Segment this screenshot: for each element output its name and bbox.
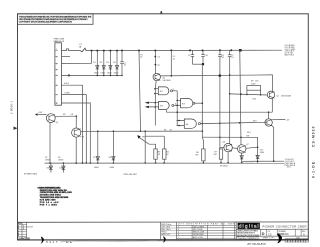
- signature box: [161, 222, 177, 243]
- capacitor C9: [188, 50, 194, 64]
- handwritten note below title block: [247, 242, 266, 246]
- svg-text:1/2W: 1/2W: [251, 84, 256, 86]
- svg-text:D9 D664: D9 D664: [220, 166, 227, 168]
- svg-text:Q2: Q2: [56, 122, 59, 124]
- svg-text:CAP .01 MFD: CAP .01 MFD: [193, 225, 205, 228]
- wire x257 drop: [257, 137, 259, 163]
- svg-text:.01: .01: [222, 57, 225, 59]
- wire pin1 to fuse: [62, 49, 81, 51]
- transistor Q6: [220, 142, 232, 163]
- svg-text:R14: R14: [247, 132, 250, 134]
- right margin vertical drawing number: [312, 126, 316, 178]
- svg-text:11: 11: [175, 103, 177, 105]
- wire Q2 collector to Q3 base: [55, 114, 77, 128]
- diode D2: [100, 51, 106, 76]
- digital logo: [238, 223, 260, 229]
- wire Q1 collector run: [160, 75, 272, 76]
- capacitor C1: [120, 51, 126, 76]
- svg-text:D662: D662: [94, 72, 99, 74]
- svg-text:5: 5: [56, 75, 57, 77]
- wire E3-E4 vertical: [202, 64, 204, 149]
- node power gnd label: [24, 174, 138, 177]
- svg-text:D1: D1: [93, 62, 95, 64]
- svg-text:1K: 1K: [158, 154, 161, 156]
- svg-text:PWR GND RET: PWR GND RET: [124, 174, 138, 176]
- svg-text:D4: D4: [113, 62, 115, 64]
- svg-text:Q6: Q6: [223, 142, 226, 144]
- svg-text:.01: .01: [173, 59, 176, 61]
- wire y1362 run: [145, 136, 164, 149]
- svg-text:2: 2: [23, 228, 24, 230]
- svg-text:E4: E4: [186, 124, 189, 126]
- parts list table: [177, 222, 237, 240]
- wire connector pin7 drop: [62, 83, 87, 163]
- svg-text:Q2: Q2: [276, 95, 279, 97]
- svg-text:C8: C8: [71, 114, 73, 116]
- svg-text:D664: D664: [47, 168, 51, 170]
- node +15V labels top right: [284, 44, 295, 57]
- title text: [263, 224, 307, 228]
- wire loop y112: [167, 110, 273, 113]
- diode lower bus junction dots: [97, 75, 123, 77]
- svg-text:JKT 84L2B-BYP: JKT 84L2B-BYP: [247, 242, 266, 246]
- title block: [236, 222, 308, 240]
- svg-text:POWER CONNECTOR CBDR: POWER CONNECTOR CBDR: [263, 224, 307, 228]
- wire bus drop at 240: [240, 50, 241, 145]
- svg-text:.01: .01: [124, 65, 127, 67]
- diode D7: [93, 131, 100, 169]
- svg-text:R5: R5: [164, 129, 166, 131]
- svg-text:D662: D662: [107, 72, 112, 74]
- svg-text:0-1-DE: 0-1-DE: [312, 161, 316, 178]
- svg-text:D662: D662: [101, 72, 106, 74]
- wire connector pin8 drop: [62, 103, 91, 163]
- svg-text:6 BLK: 6 BLK: [64, 83, 70, 85]
- svg-text:5417 - ME: 5417 - ME: [46, 240, 73, 244]
- svg-text:R8: R8: [247, 135, 249, 137]
- fuse F1: [79, 44, 86, 52]
- resistor R9 bypass: [247, 81, 261, 101]
- diode D9: [220, 153, 243, 167]
- ground bus wire: [45, 162, 284, 164]
- resistor R3: [154, 149, 161, 163]
- svg-text:ENG J.Best: ENG J.Best: [161, 228, 171, 231]
- svg-text:MAYNARD. MASSACHUSETTS: MAYNARD. MASSACHUSETTS: [237, 232, 256, 235]
- diode D4: [113, 51, 119, 76]
- svg-text:8: 8: [173, 89, 174, 91]
- node out labels right middle: [285, 158, 296, 169]
- svg-text:R10: R10: [253, 98, 256, 100]
- svg-text:D664: D664: [110, 167, 115, 169]
- capacitor C6: [218, 50, 224, 59]
- svg-text:digital: digital: [239, 224, 259, 229]
- svg-text:6: 6: [201, 121, 202, 123]
- wire Q1 emitter down: [154, 81, 156, 126]
- wire right out line2: [242, 160, 284, 162]
- microfilm ruler: [285, 239, 308, 242]
- svg-text:E3: E3: [182, 103, 185, 105]
- bold pen mark title block: [277, 234, 282, 244]
- svg-text:D7: D7: [93, 157, 95, 159]
- svg-text:D664: D664: [94, 167, 99, 169]
- svg-text:Q7: Q7: [246, 144, 249, 146]
- top border tick: [161, 11, 163, 13]
- title block small text: [237, 229, 260, 240]
- svg-text:1: 1: [178, 237, 179, 239]
- nand gate E3: [181, 99, 203, 108]
- svg-text:CS-M920: CS-M920: [312, 126, 316, 147]
- diode D1: [93, 51, 99, 76]
- svg-text:COPYRIGHT 1971 BY DIGITAL EQUI: COPYRIGHT 1971 BY DIGITAL EQUIPMENT CORP…: [19, 21, 72, 24]
- size code cells: [262, 231, 307, 240]
- notice box: [18, 14, 94, 24]
- svg-text:C10: C10: [205, 55, 208, 57]
- diode D3: [106, 51, 112, 76]
- capacitor C4 drop: [171, 50, 176, 76]
- ground bus junction dots: [49, 162, 242, 164]
- svg-text:2: 2: [56, 56, 57, 58]
- connector J1: [54, 39, 65, 106]
- wire E4 output to Q5 base: [200, 122, 267, 124]
- svg-text:R9: R9: [251, 81, 253, 83]
- wire vertical x230: [229, 57, 231, 144]
- wire connector pin5 to lower bus: [62, 75, 123, 77]
- nand gate E1: [155, 87, 177, 95]
- wire vertical x220: [219, 57, 221, 149]
- transistor Q7: [232, 144, 257, 153]
- svg-text:CHK T.Holt: CHK T.Holt: [161, 225, 170, 228]
- svg-text:390: 390: [195, 155, 198, 157]
- wire y137 run: [202, 135, 257, 138]
- svg-text:4: 4: [56, 69, 57, 71]
- svg-text:1N748: 1N748: [58, 160, 63, 162]
- svg-text:C9: C9: [188, 55, 190, 57]
- svg-text:(POWER GND): (POWER GND): [24, 174, 37, 176]
- wire Q4 emitter down: [271, 98, 273, 112]
- wire Q3 emitter down: [75, 137, 77, 163]
- svg-text:D8: D8: [109, 157, 111, 159]
- test point TP1 arrow: [137, 135, 155, 149]
- svg-text:CHANGE NO: CHANGE NO: [18, 238, 31, 241]
- svg-text:D664: D664: [60, 168, 64, 170]
- wire Q2 emitter down: [49, 123, 51, 164]
- svg-text:D664: D664: [260, 152, 264, 154]
- svg-text:+15V: +15V: [38, 112, 43, 114]
- capacitor C10: [201, 50, 207, 64]
- svg-text:E1: E1: [160, 91, 163, 93]
- wire connector pin3 to diode bus: [62, 51, 92, 64]
- svg-text:QTY DESCRIPTION PART NO. RE: QTY DESCRIPTION PART NO. REF: [178, 223, 235, 226]
- svg-text:470: 470: [255, 81, 258, 83]
- svg-text:D2: D2: [100, 62, 102, 64]
- bottom scribble mark 1: [41, 237, 160, 245]
- svg-text:8: 8: [56, 103, 57, 105]
- svg-text:1N748: 1N748: [45, 160, 50, 162]
- svg-text:E: E: [18, 235, 20, 237]
- svg-text:1K: 1K: [140, 57, 143, 59]
- resistor R7: [214, 149, 223, 163]
- svg-text:CS: CS: [268, 232, 272, 236]
- diode D6: [58, 157, 65, 172]
- svg-text:R13: R13: [253, 120, 256, 122]
- transistor Q4: [267, 91, 291, 98]
- svg-text:1: 1: [56, 49, 57, 51]
- svg-text:6: 6: [56, 85, 57, 87]
- revision table bottom left: [18, 222, 34, 240]
- svg-text:D3: D3: [106, 62, 108, 64]
- svg-text:CIRCUITS ARE PROPRIETARY IN NA: CIRCUITS ARE PROPRIETARY IN NATURE AND S…: [19, 18, 89, 21]
- left margin vertical drawing number: [10, 100, 14, 114]
- wire x145 vertical: [144, 131, 146, 163]
- +V bus wire: [86, 49, 282, 51]
- wire long vertical from bus: [139, 51, 143, 133]
- svg-text:R2: R2: [158, 65, 160, 67]
- svg-text:AMP CONN: AMP CONN: [193, 236, 203, 239]
- svg-text:THIS SCHEMATIC IS FURNISHED ON: THIS SCHEMATIC IS FURNISHED ONLY FOR TES…: [19, 15, 92, 18]
- svg-text:D662: D662: [114, 72, 119, 74]
- wire Q4 base line: [230, 93, 268, 95]
- wire Q5 emitter down: [247, 125, 274, 161]
- svg-text:3: 3: [56, 63, 57, 65]
- diode D5: [45, 157, 53, 172]
- diode D8: [109, 131, 116, 169]
- svg-text:DATE 9-12: DATE 9-12: [161, 233, 170, 236]
- capacitor C7: [228, 50, 234, 59]
- wire connector pin2 stub: [62, 56, 71, 58]
- svg-text:GND F BLK: GND F BLK: [284, 55, 295, 57]
- bus junction dots: [91, 49, 242, 52]
- svg-text:SHEET 1 OF 1: SHEET 1 OF 1: [263, 238, 275, 240]
- svg-text:R2: R2: [63, 114, 65, 116]
- transistor Q5: [253, 112, 290, 126]
- svg-text:A: A: [303, 232, 305, 236]
- transistor Q2: [35, 112, 59, 124]
- svg-text:E2: E2: [160, 106, 163, 108]
- svg-text:7: 7: [56, 94, 57, 96]
- resistor R4: [163, 149, 170, 163]
- svg-text:2 M920-1: 2 M920-1: [10, 100, 14, 114]
- svg-text:D: D: [262, 231, 265, 236]
- resistor R6: [195, 149, 205, 163]
- svg-text:PIN 7 = GND: PIN 7 = GND: [40, 204, 58, 206]
- svg-text:DEC3009: DEC3009: [163, 80, 171, 82]
- svg-text:(5V): (5V): [287, 167, 291, 169]
- bottom strip line: [18, 222, 309, 241]
- wire Q3 output run: [81, 129, 203, 132]
- nand gate E4: [177, 119, 202, 128]
- notes text block: [38, 186, 73, 206]
- wire connector pin6 drop: [62, 85, 83, 163]
- transistor Q3: [72, 128, 84, 139]
- svg-text:TP1: TP1: [142, 137, 145, 139]
- wire Q4 collector up: [272, 75, 274, 91]
- svg-text:7 GRN: 7 GRN: [64, 93, 70, 95]
- left border zone arrow: [14, 127, 18, 130]
- wire C9-C10 link: [193, 63, 205, 65]
- diode D10: [256, 150, 264, 159]
- svg-text:.01: .01: [231, 57, 234, 59]
- transistor Q1: [153, 51, 171, 82]
- svg-text:220: 220: [214, 154, 217, 156]
- svg-text:DEC6534B: DEC6534B: [281, 95, 291, 97]
- nand gate E2: [145, 102, 178, 110]
- svg-text:+5V: +5V: [286, 120, 290, 122]
- svg-text:C3: C3: [158, 57, 160, 59]
- svg-text:1K: 1K: [166, 154, 169, 156]
- wire E1-E2 outputs to E3-E4 inputs: [176, 91, 180, 126]
